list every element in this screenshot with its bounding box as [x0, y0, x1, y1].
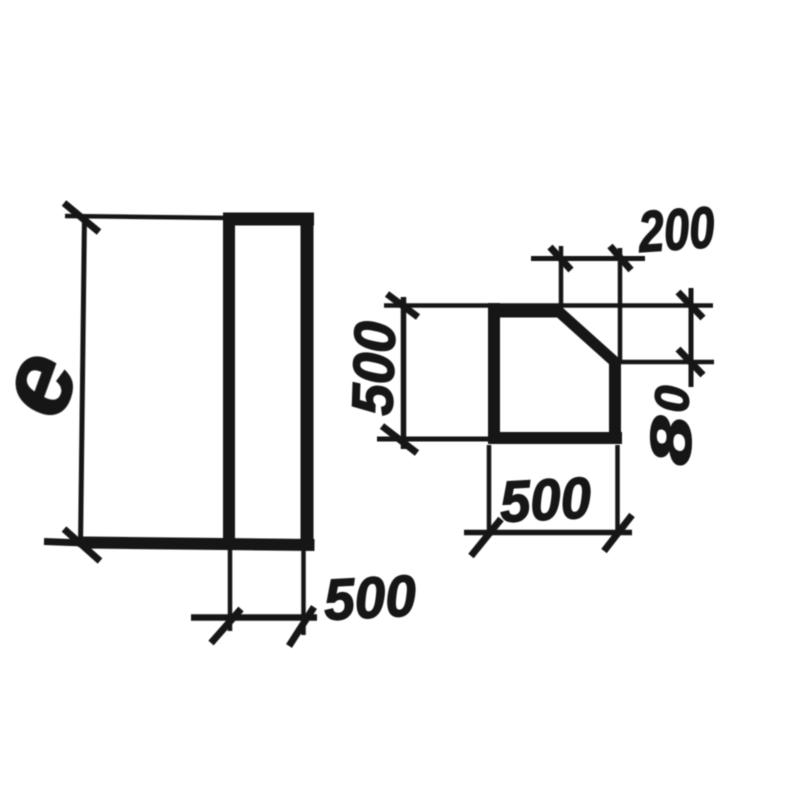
svg-text:0: 0: [646, 385, 700, 414]
svg-text:500: 500: [498, 465, 592, 535]
svg-text:500: 500: [340, 320, 408, 416]
svg-text:200: 200: [636, 195, 717, 265]
svg-text:500: 500: [322, 563, 417, 633]
svg-text:8: 8: [638, 414, 705, 466]
svg-text:e: e: [0, 336, 102, 431]
